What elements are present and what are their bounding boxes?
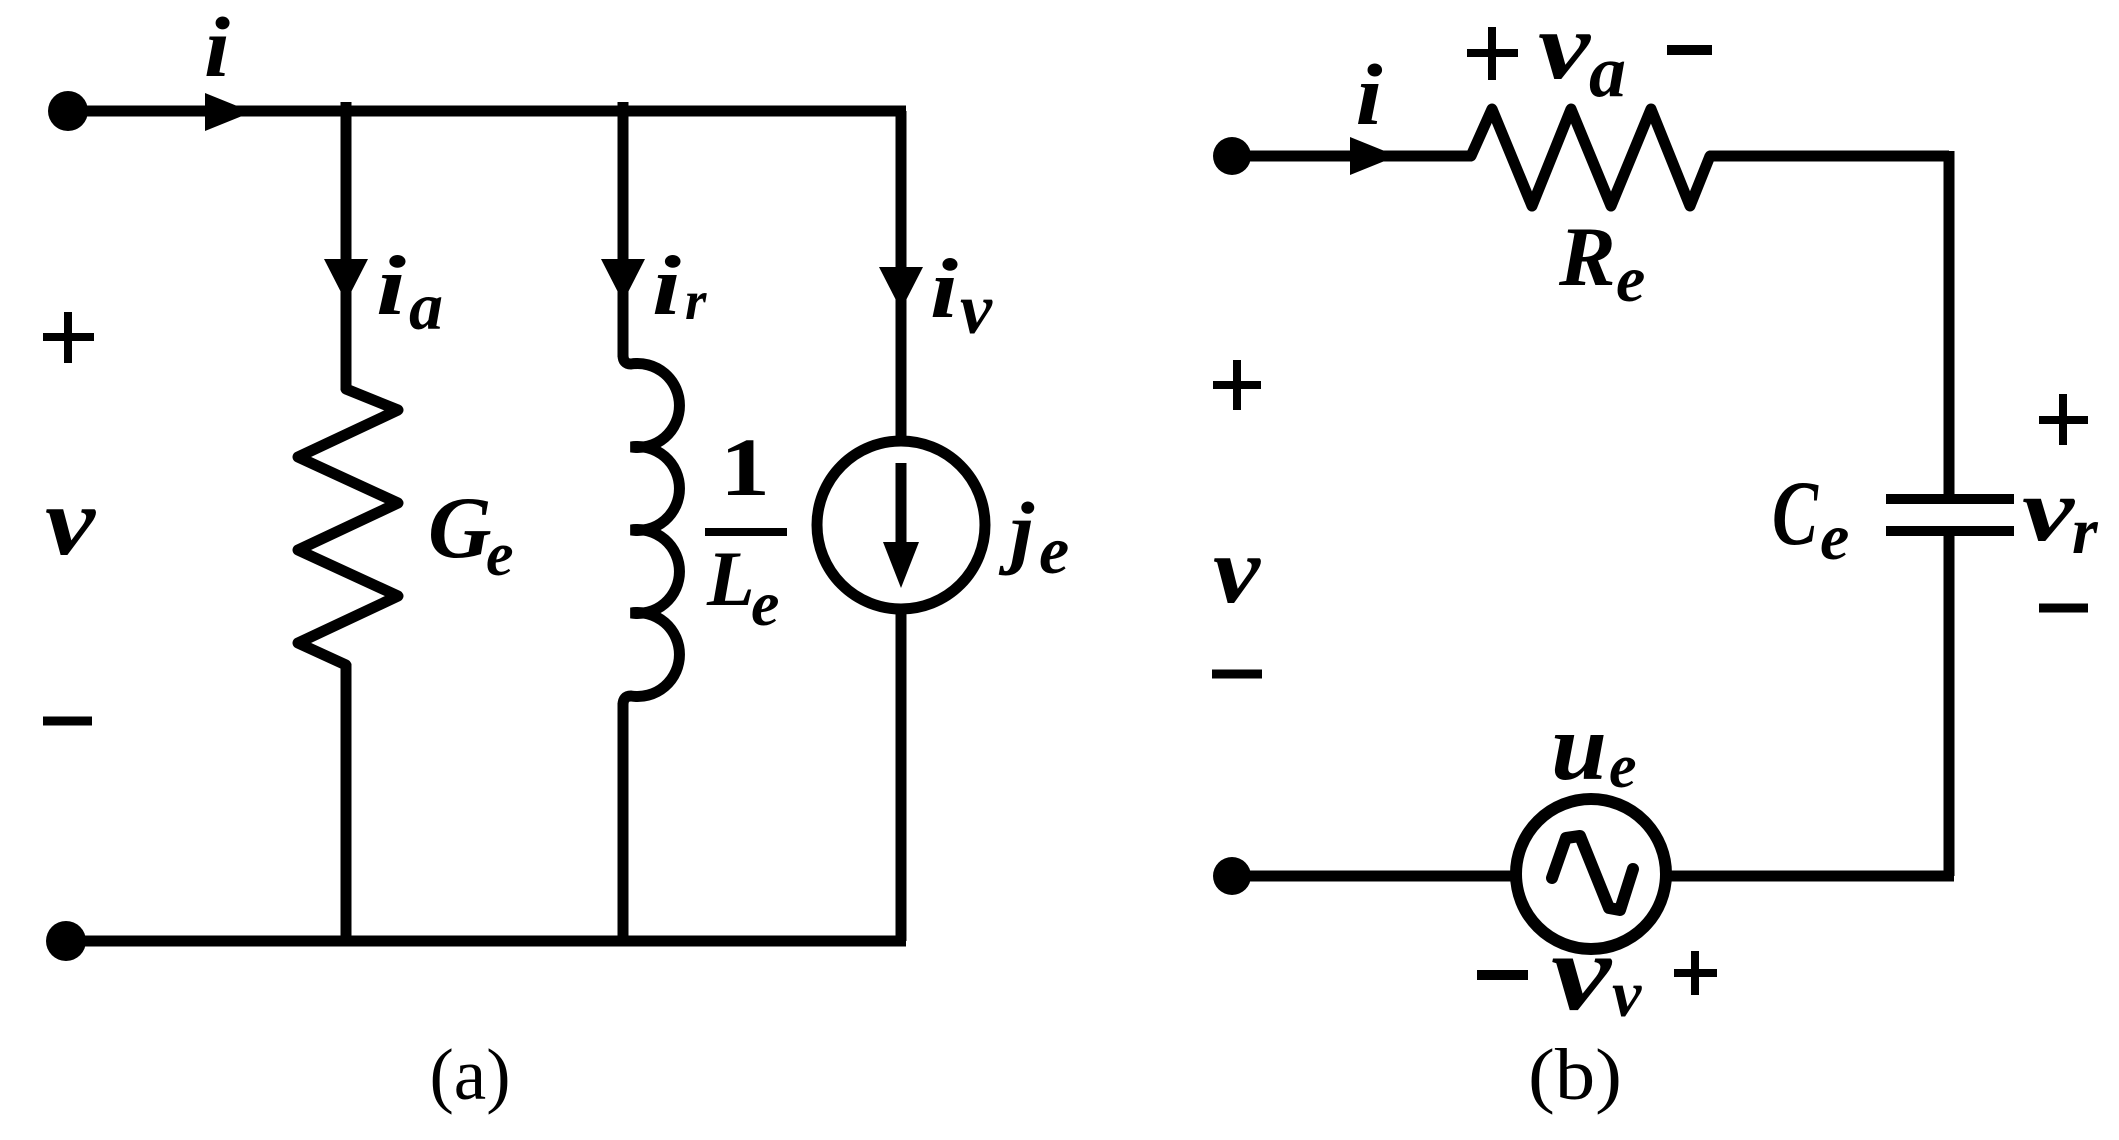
svg-text:i: i: [930, 242, 958, 336]
svg-text:r: r: [685, 270, 707, 331]
node dot bottom-left (b): [1213, 857, 1251, 895]
wire right vertical upper (b): [1944, 151, 1955, 494]
svg-text:e: e: [751, 568, 779, 639]
node dot top-left (a): [48, 91, 88, 131]
svg-text:e: e: [1616, 243, 1645, 316]
resistor R_e zigzag: [1471, 109, 1710, 206]
wire top-left (b): [1232, 151, 1472, 162]
current source j_e inner arrowhead: [883, 542, 919, 588]
resistor G_e zigzag: [298, 389, 398, 665]
voltage source u_e circle: [1516, 799, 1666, 949]
arrow current i_a: [324, 259, 368, 302]
voltage source u_e sine wave: [1552, 836, 1633, 910]
svg-text:C: C: [1772, 462, 1819, 564]
label + of v_a: [1467, 27, 1518, 80]
wire branch G_e upper: [341, 102, 352, 390]
arrow current i (b): [1350, 137, 1397, 175]
svg-text:i: i: [204, 0, 230, 95]
svg-text:e: e: [1039, 512, 1069, 588]
wire branch j_e lower: [896, 604, 907, 941]
svg-text:R: R: [1558, 210, 1616, 304]
svg-text:(a): (a): [429, 1034, 510, 1115]
label minus (a): [43, 717, 92, 726]
svg-text:e: e: [486, 521, 514, 589]
svg-text:a: a: [409, 268, 443, 344]
wire branch L_e upper: [618, 102, 629, 357]
label minus left (b): [1212, 670, 1262, 679]
svg-text:i: i: [1356, 46, 1383, 143]
svg-text:(b): (b): [1528, 1034, 1622, 1115]
wire branch G_e lower: [341, 664, 352, 941]
wire bottom-right (b): [1663, 871, 1954, 882]
inductor 1/L_e coil: [623, 355, 679, 705]
svg-text:i: i: [376, 239, 406, 333]
label 1/L_e fraction bar: [705, 528, 787, 536]
svg-text:i: i: [652, 239, 681, 333]
label + (a): [43, 312, 94, 363]
svg-text:e: e: [1609, 733, 1637, 801]
label minus of v_r: [2039, 604, 2088, 613]
current source j_e circle: [817, 441, 985, 609]
capacitor C_e top plate: [1886, 494, 2014, 504]
capacitor C_e bottom plate: [1886, 526, 2014, 536]
wire branch L_e lower: [618, 703, 629, 941]
wire top horizontal (a): [66, 106, 906, 117]
current source j_e inner arrow shaft: [896, 463, 907, 550]
label + left (b): [1213, 360, 1261, 410]
node dot bottom-left (a): [46, 921, 86, 961]
svg-text:1: 1: [720, 421, 770, 513]
wire bottom horizontal (a): [66, 936, 906, 947]
label + of v_r: [2039, 394, 2088, 445]
svg-text:e: e: [1820, 501, 1849, 574]
svg-text:v: v: [1551, 911, 1612, 1033]
svg-text:v: v: [1213, 517, 1261, 623]
arrow current i (a): [205, 93, 252, 131]
svg-text:v: v: [1538, 0, 1591, 99]
svg-text:a: a: [1589, 31, 1626, 113]
svg-text:v: v: [1612, 958, 1642, 1031]
wire branch j_e upper: [896, 111, 907, 446]
label + of v_v: [1674, 951, 1717, 995]
svg-text:v: v: [45, 468, 96, 575]
svg-text:L: L: [706, 535, 755, 622]
label minus of v_v: [1477, 970, 1528, 980]
svg-text:v: v: [960, 269, 993, 349]
label minus of v_a: [1667, 45, 1712, 55]
wire bottom-left (b): [1232, 871, 1519, 882]
arrow current i_v: [879, 267, 923, 310]
wire right vertical lower (b): [1944, 536, 1955, 876]
svg-text:v: v: [2022, 461, 2075, 560]
svg-text:r: r: [2072, 495, 2099, 568]
node dot top-left (b): [1213, 137, 1251, 175]
wire top-right (b): [1709, 151, 1949, 162]
arrow current i_r: [601, 259, 645, 302]
svg-text:u: u: [1551, 694, 1607, 800]
svg-text:G: G: [428, 480, 492, 577]
